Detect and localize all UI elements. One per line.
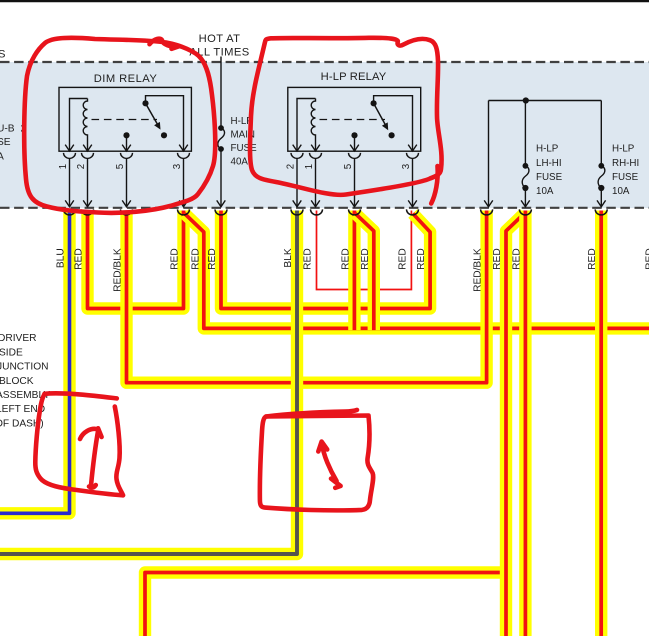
- svg-text:1: 1: [58, 164, 69, 169]
- svg-text:1: 1: [304, 164, 315, 169]
- svg-text:H-LP: H-LP: [612, 144, 635, 155]
- svg-text:RH-HI: RH-HI: [612, 158, 639, 169]
- H-LP linkage dashed: [320, 119, 386, 121]
- annotation arrow center: [322, 443, 337, 481]
- DIM pin leads to bus bottom: [65, 158, 188, 206]
- svg-text:DRIVER: DRIVER: [0, 333, 37, 344]
- svg-text:2: 2: [286, 164, 297, 169]
- H-LP pin 3 internal wire: [374, 96, 413, 152]
- H-LP pin 5 internal wire: [354, 136, 356, 151]
- wire RED U-loop DIM pin2 to DIM pin3: [88, 211, 184, 309]
- svg-text:RED: RED: [303, 248, 314, 270]
- svg-text:RED: RED: [492, 248, 503, 270]
- svg-text:RED: RED: [341, 248, 352, 270]
- H-LP switch arm: [374, 103, 386, 124]
- svg-text:RED: RED: [398, 248, 409, 270]
- svg-text:RED: RED: [645, 248, 649, 270]
- svg-text:RED: RED: [74, 248, 85, 270]
- wire color labels: [56, 248, 649, 292]
- svg-text:RED: RED: [511, 248, 522, 270]
- svg-text:RED/BLK: RED/BLK: [113, 248, 124, 292]
- H-LP relay U2: [288, 87, 421, 151]
- DIM pin 5 internal wire: [126, 136, 128, 151]
- H-LP pin5 contact: [351, 132, 357, 138]
- wire RED branch from DIM pin3 to long run B/C: [185, 214, 649, 329]
- right fuse feed bus: [484, 101, 605, 207]
- svg-text:BLK: BLK: [283, 248, 294, 267]
- svg-text:10A: 10A: [536, 186, 554, 197]
- DIM pin 3 internal wire: [146, 96, 184, 152]
- wire RED H-LP pin5 left branch down to run C: [348, 211, 360, 331]
- svg-text:SIDE: SIDE: [0, 347, 23, 358]
- page top border line: [0, 0, 649, 2]
- H-LP pin numbers 2 1 5 3: [286, 164, 413, 169]
- DIM relay box: [59, 87, 191, 151]
- svg-text:2: 2: [76, 164, 87, 169]
- DIM pin cups at box bottom: [64, 153, 190, 159]
- wire RED H-LP pin5 right branch down to run C: [355, 214, 374, 331]
- svg-text:LH-HI: LH-HI: [536, 158, 562, 169]
- wire RED LH-HI fuse left branch to page bottom: [506, 214, 524, 636]
- H-LP switch NO contact: [389, 132, 395, 138]
- wire BLK H-LP pin2 down and left off page: [0, 211, 297, 555]
- svg-text:S: S: [0, 49, 5, 61]
- H-LP LH-HI FUSE label: [536, 144, 563, 198]
- bus dashed line top: [0, 61, 649, 63]
- connector cups below bus: [64, 209, 608, 215]
- svg-text:HOT AT: HOT AT: [199, 33, 241, 45]
- svg-text:FUSE: FUSE: [612, 172, 639, 183]
- H-LP MAIN FUSE 40A: [217, 57, 226, 207]
- bus dashed line bottom: [0, 207, 649, 209]
- wire RED RH-HI fuse drop to page bottom: [595, 211, 607, 636]
- svg-text:RED: RED: [587, 248, 598, 270]
- svg-text:RED/BLK: RED/BLK: [473, 248, 484, 292]
- wire RED bottom horizontal with drop to page bottom: [145, 573, 512, 636]
- H-LP LH-HI fuse lead: [524, 101, 526, 166]
- svg-text:10A: 10A: [612, 186, 630, 197]
- H-LP pin cups at box bottom: [291, 153, 419, 159]
- wire RED U-loop H-LP MAIN FUSE to H-LP pin3: [221, 211, 430, 309]
- svg-text:FUSE: FUSE: [536, 172, 563, 183]
- wire BLU from DIM pin1 down and left off page: [0, 211, 70, 514]
- H-LP relay coil: [311, 99, 315, 152]
- svg-text:JUNCTION: JUNCTION: [0, 362, 49, 373]
- svg-text:FUSE: FUSE: [231, 143, 258, 154]
- partial fuse label left edge (U-B 2 / SE / A): [0, 124, 27, 163]
- H-LP MAIN FUSE label: [231, 116, 258, 168]
- svg-text:H-LP: H-LP: [536, 144, 559, 155]
- svg-text:40A: 40A: [231, 157, 249, 168]
- svg-text:3: 3: [172, 164, 183, 169]
- svg-text:BLU: BLU: [56, 248, 67, 268]
- H-LP pin arrows at box bottom: [293, 145, 417, 151]
- DIM relay U1: [59, 87, 191, 151]
- svg-text:RED: RED: [170, 248, 181, 270]
- svg-text:U-B: U-B: [0, 124, 15, 135]
- H-LP RH-HI fuse lead: [600, 101, 602, 166]
- fuse contact dots: [523, 163, 529, 169]
- svg-text:H-LP RELAY: H-LP RELAY: [321, 71, 387, 83]
- annotation circle H-LP tail: [431, 166, 437, 204]
- DIM switch NO contact: [161, 132, 167, 138]
- wire RED/BLK U-loop DIM pin5 to right RED/BLK drop: [127, 211, 487, 383]
- DIM relay coil: [83, 99, 87, 152]
- label HOT AT ALL TIMES: [189, 33, 249, 59]
- feed bus junction node: [523, 97, 529, 103]
- svg-text:RED: RED: [191, 248, 202, 270]
- DIM linkage dashed: [92, 119, 158, 121]
- svg-text:RED: RED: [207, 248, 218, 270]
- annotation circle around DIM relay: [24, 38, 215, 213]
- annotation circle around H-LP relay: [250, 38, 442, 195]
- wire RED LH-HI fuse straight drop to page bottom: [519, 211, 531, 636]
- DIM switch arm: [146, 103, 158, 124]
- DIM pin 1 internal wire: [70, 99, 88, 152]
- annotation box bottom-left: [45, 393, 117, 398]
- svg-text:RED: RED: [360, 248, 371, 270]
- H-LP switch common contact: [371, 100, 377, 106]
- RED/BLK feed lead: [488, 101, 490, 207]
- annotation box center: [266, 410, 357, 417]
- DIM pin5 contact: [123, 132, 129, 138]
- junction block note text: [0, 333, 50, 429]
- DIM pin numbers 1 2 5 3: [58, 164, 183, 169]
- DIM switch common contact: [142, 100, 148, 106]
- svg-text:5: 5: [115, 164, 126, 169]
- svg-text:A: A: [0, 152, 4, 163]
- H-LP pin 2 internal wire: [297, 99, 316, 152]
- svg-text:3: 3: [401, 164, 412, 169]
- svg-text:RED: RED: [416, 248, 427, 270]
- wire RED thin U-loop H-LP pin1 to pin3: [317, 211, 412, 290]
- hot-at-all-times bus band: [0, 62, 649, 208]
- svg-text:BLOCK: BLOCK: [0, 376, 34, 387]
- svg-text:5: 5: [343, 164, 354, 169]
- svg-text:DIM RELAY: DIM RELAY: [94, 73, 158, 85]
- svg-text:SE: SE: [0, 137, 11, 148]
- annotation arrow bottom-left: [91, 430, 98, 486]
- DIM pin arrows at box bottom: [65, 145, 188, 151]
- H-LP RH-HI FUSE label: [612, 144, 639, 198]
- H-LP relay box: [288, 87, 421, 151]
- H-LP pin leads to bus bottom: [293, 158, 417, 206]
